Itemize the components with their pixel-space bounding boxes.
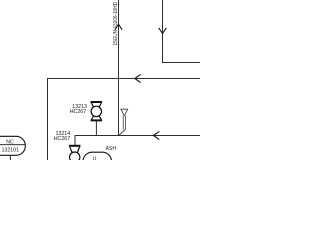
svg-text:NC: NC [6,140,14,146]
arrow left on bottom bus [153,131,159,139]
wire: right vertical drop [163,0,201,63]
terminal take-out symbol at junction [119,109,128,135]
svg-text:HC267: HC267 [54,136,71,142]
arrow down on right vertical wire [159,28,167,34]
wire: stub below connector NC 132101 [9,155,11,160]
wire: bottom horizontal bus [75,136,200,146]
svg-text:132101: 132101 [2,148,19,154]
wire: left vertical feed 15GUN-13206-10HD [118,0,120,136]
connector oval NC 132101 [0,136,25,155]
bulb 13214 [69,146,81,163]
svg-text:ASH: ASH [106,146,117,152]
arrow up on left feed wire [115,24,122,30]
svg-text:HC267: HC267 [70,109,87,115]
wire: bulb 13213 bottom lead [95,121,97,135]
svg-text:U: U [93,156,97,160]
bulb 13213 [91,102,103,120]
svg-text:15GUN-13206-10HD: 15GUN-13206-10HD [113,2,119,46]
wire: upper horizontal bus with corner down at x=47 [48,79,201,161]
arrow left on upper horizontal bus [135,74,141,82]
connector oval bottom right [83,152,112,171]
